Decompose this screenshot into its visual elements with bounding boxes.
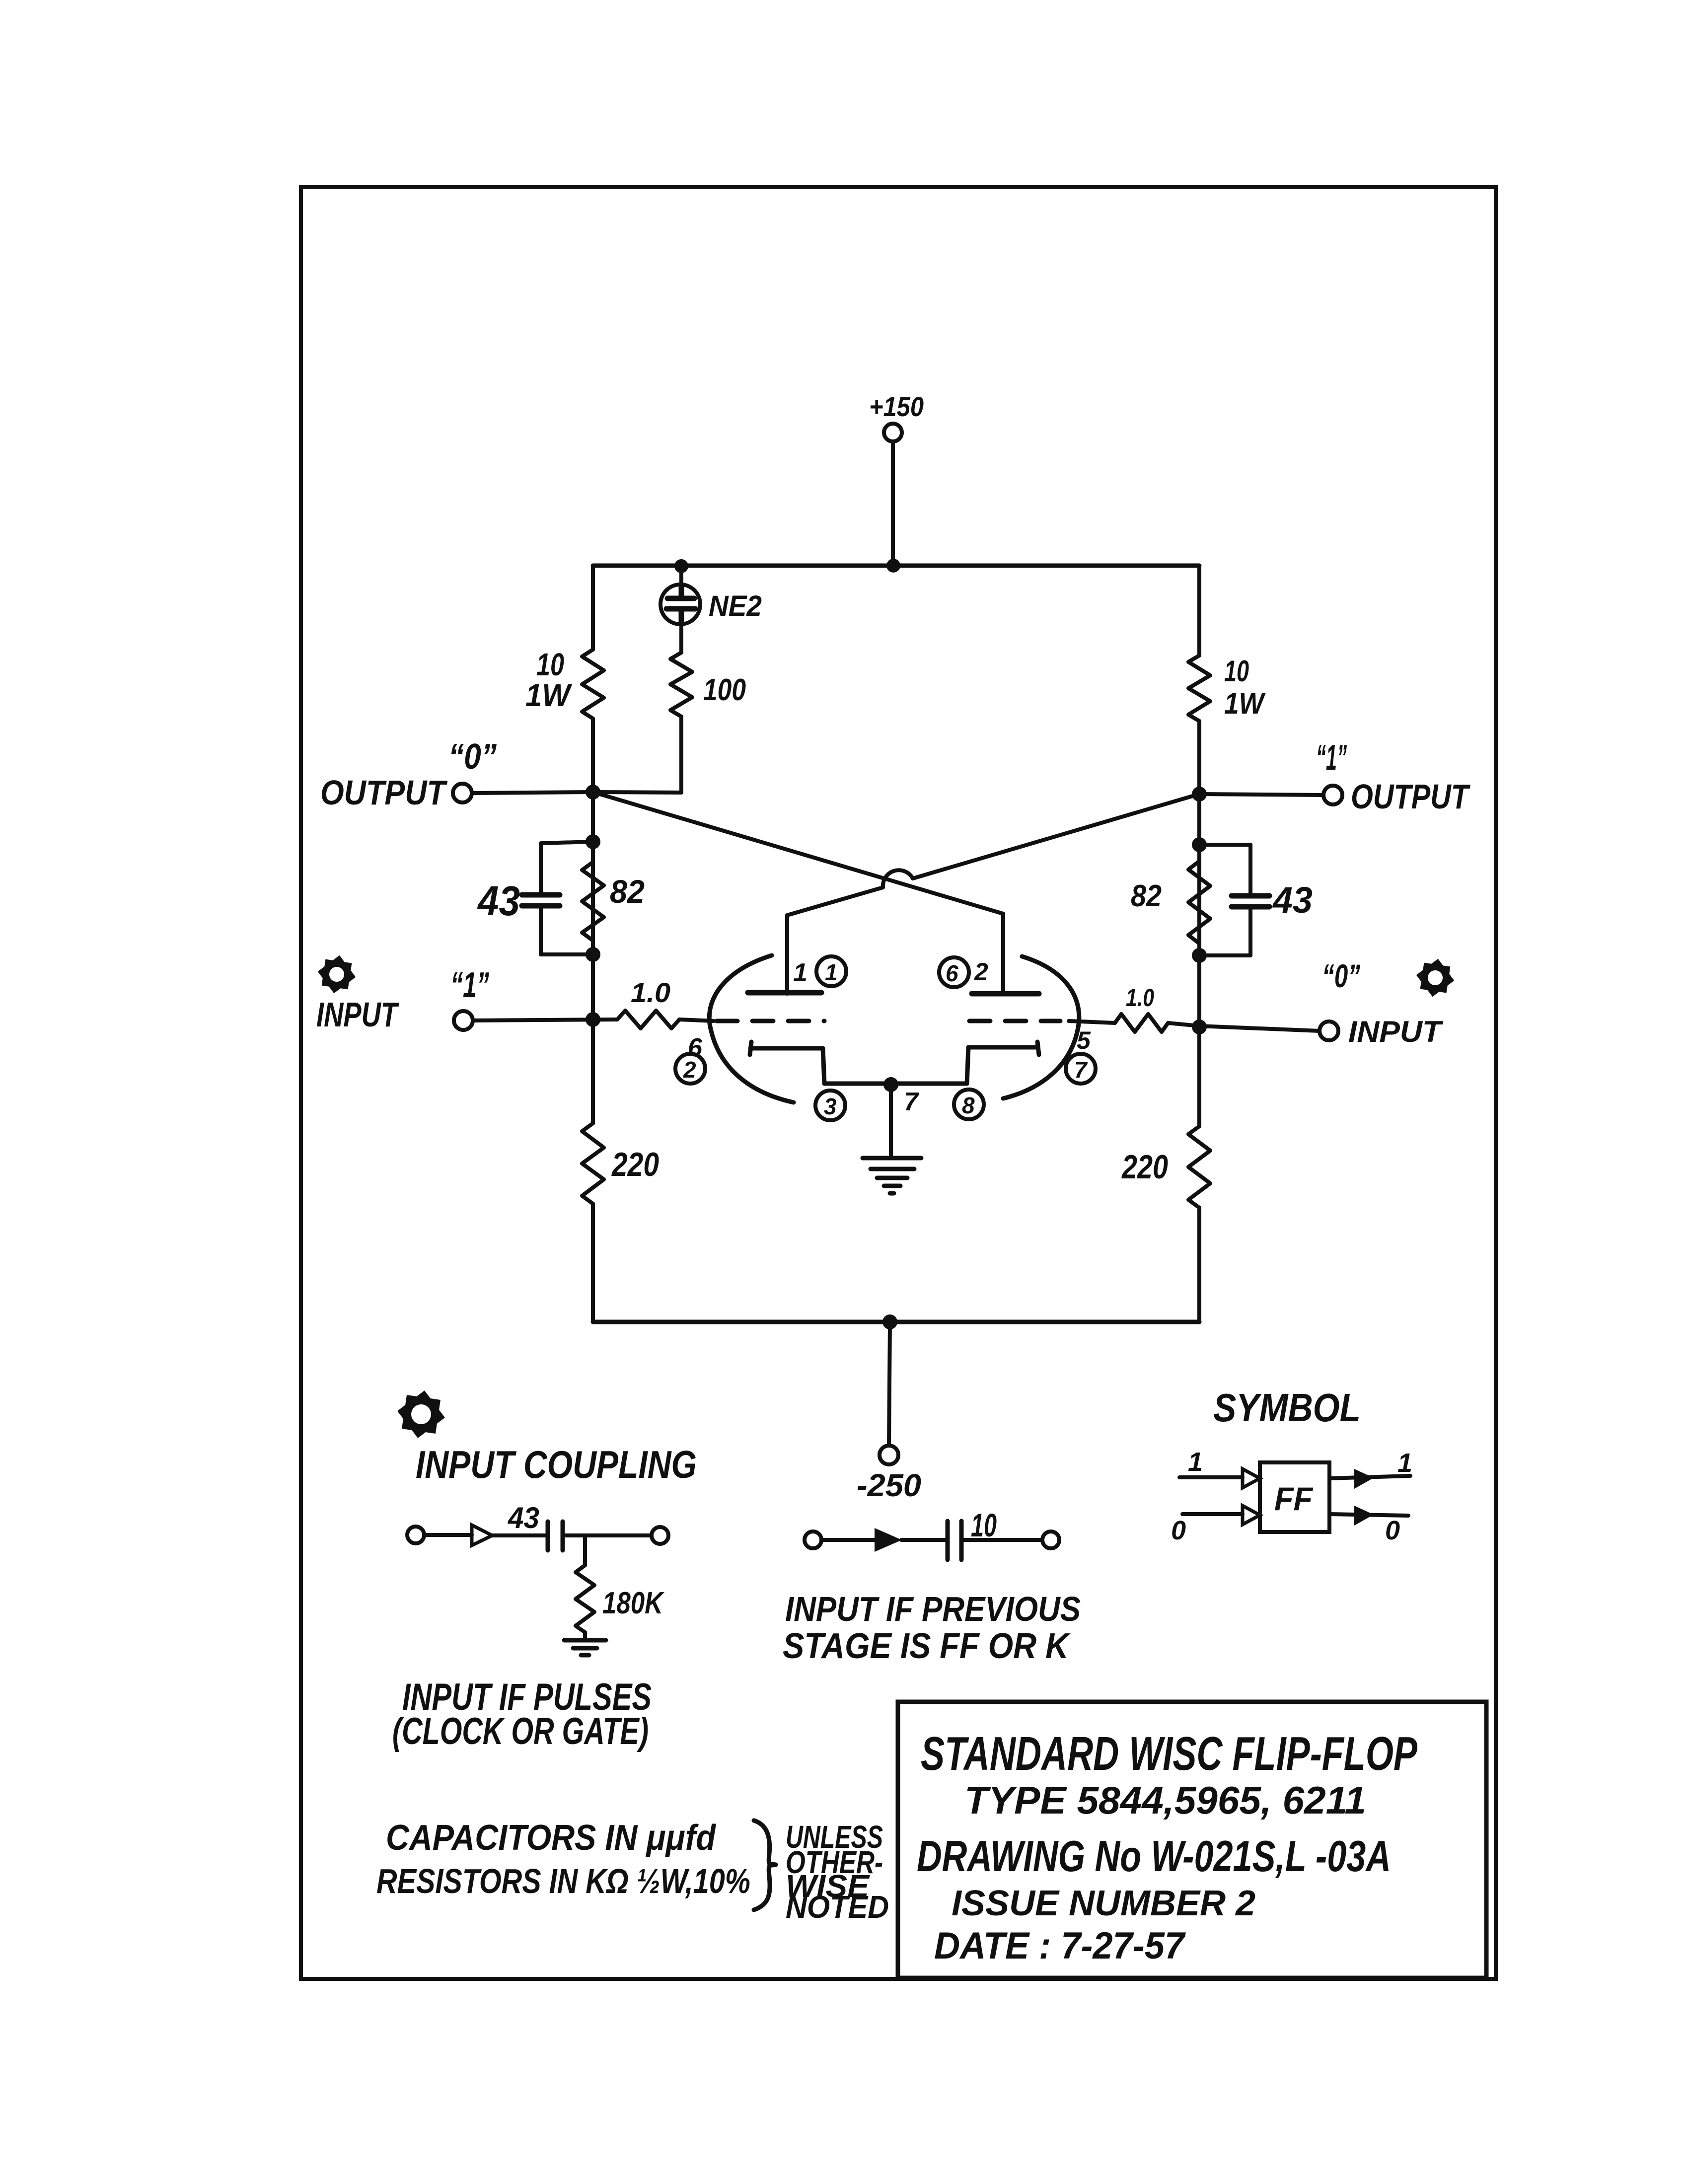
svg-text:NOTED: NOTED xyxy=(786,1889,889,1925)
terminal left output xyxy=(453,784,472,802)
connector symbol input coupling xyxy=(400,1393,442,1436)
wire left rail lower xyxy=(591,1204,595,1322)
svg-text:SYMBOL: SYMBOL xyxy=(1213,1385,1361,1430)
svg-text:43: 43 xyxy=(477,877,520,924)
pin circled 1 xyxy=(816,956,846,986)
svg-text:NE2: NE2 xyxy=(709,590,762,622)
left triode plate xyxy=(748,990,821,996)
neon bulb NE2 xyxy=(679,566,683,589)
capacitor 43 left branch xyxy=(541,842,593,954)
svg-text:82: 82 xyxy=(1131,879,1162,913)
svg-text:-250: -250 xyxy=(857,1467,921,1503)
resistor left 10 1W xyxy=(582,650,604,719)
wire cathode to ground xyxy=(889,1085,893,1157)
svg-text:10: 10 xyxy=(971,1507,997,1543)
crossover hop xyxy=(883,870,913,887)
junction top rail / +150 xyxy=(886,559,900,573)
terminal coupling A right xyxy=(652,1527,668,1544)
svg-text:RESISTORS IN KΩ ½W,10%: RESISTORS IN KΩ ½W,10% xyxy=(376,1862,750,1900)
svg-text:3: 3 xyxy=(824,1093,837,1119)
svg-text:43: 43 xyxy=(1272,879,1313,921)
svg-text:8: 8 xyxy=(962,1092,975,1118)
pin circled 8 xyxy=(954,1090,984,1119)
wire right input xyxy=(1069,1021,1320,1031)
resistor 180K xyxy=(576,1565,594,1632)
capacitor 43 right branch xyxy=(1199,845,1250,955)
pin circled 2 xyxy=(675,1054,705,1084)
wire coupling A to 180K xyxy=(583,1535,587,1565)
junction left 43/82 top xyxy=(586,834,600,849)
terminal coupling A left xyxy=(407,1527,424,1543)
diode coupling A (open) xyxy=(472,1525,492,1545)
svg-text:0: 0 xyxy=(1171,1516,1186,1545)
svg-text:1: 1 xyxy=(793,958,807,987)
terminal right input xyxy=(1320,1021,1338,1040)
svg-text:1.0: 1.0 xyxy=(631,977,670,1008)
FF output 1 xyxy=(1329,1476,1410,1478)
wire right rail mid xyxy=(1197,721,1201,1126)
svg-text:“1”: “1” xyxy=(450,965,489,1005)
wire right output xyxy=(1199,794,1323,795)
junction right 43/82 bottom xyxy=(1192,948,1207,963)
svg-text:1: 1 xyxy=(1397,1448,1412,1478)
junction right output node xyxy=(1192,787,1207,801)
svg-text:“0”: “0” xyxy=(448,737,497,777)
svg-text:100: 100 xyxy=(703,673,746,707)
svg-text:ISSUE NUMBER 2: ISSUE NUMBER 2 xyxy=(952,1884,1255,1923)
svg-text:CAPACITORS IN μμfd: CAPACITORS IN μμfd xyxy=(386,1818,717,1858)
wire +150 to top rail xyxy=(891,441,895,563)
svg-text:1W: 1W xyxy=(1224,687,1266,720)
svg-text:5: 5 xyxy=(1077,1026,1091,1054)
wire left input xyxy=(473,1019,617,1020)
svg-text:7: 7 xyxy=(1074,1057,1088,1083)
svg-text:INPUT: INPUT xyxy=(316,995,399,1034)
resistor right 220 xyxy=(1188,1126,1210,1208)
svg-text:INPUT COUPLING: INPUT COUPLING xyxy=(416,1443,697,1486)
terminal -250 xyxy=(880,1446,898,1464)
pin circled 6 xyxy=(939,957,969,987)
wire NE2 to 100 xyxy=(679,624,683,653)
brace xyxy=(754,1820,776,1910)
svg-text:1.0: 1.0 xyxy=(1126,984,1154,1012)
svg-text:INPUT IF PREVIOUS: INPUT IF PREVIOUS xyxy=(785,1590,1081,1628)
svg-text:0: 0 xyxy=(1385,1516,1400,1545)
svg-text:DATE : 7-27-57: DATE : 7-27-57 xyxy=(934,1925,1186,1967)
left triode grid (dashed) xyxy=(717,1019,824,1023)
resistor 100 xyxy=(670,653,692,717)
svg-text:10: 10 xyxy=(1224,655,1249,688)
terminal left input xyxy=(454,1011,473,1030)
resistor left 82 xyxy=(582,862,604,941)
junction left output node xyxy=(586,785,600,800)
FF output 0 xyxy=(1329,1514,1408,1516)
junction top rail / NE2 branch xyxy=(674,559,688,573)
diode coupling B (filled) xyxy=(875,1528,902,1552)
ground xyxy=(863,1158,921,1193)
junction right 43/82 top xyxy=(1192,837,1207,852)
junction bottom rail / -250 xyxy=(882,1314,897,1329)
junction left input / rail xyxy=(586,1012,600,1027)
FF symbol box xyxy=(1260,1462,1329,1532)
resistor right 82 xyxy=(1188,861,1210,944)
wire right rail upper xyxy=(1197,566,1201,655)
svg-text:220: 220 xyxy=(611,1146,659,1183)
terminal right output xyxy=(1323,786,1342,804)
svg-text:1: 1 xyxy=(1188,1447,1203,1477)
terminal coupling B right xyxy=(1042,1531,1059,1548)
ground coupling A xyxy=(564,1640,606,1655)
svg-text:220: 220 xyxy=(1121,1148,1168,1186)
wire cross-coupling right node to left plate xyxy=(787,794,1199,994)
wire left 1.0 to tube xyxy=(679,1019,714,1021)
svg-text:STANDARD WISC FLIP-FLOP: STANDARD WISC FLIP-FLOP xyxy=(921,1727,1418,1780)
junction left 43/82 bottom xyxy=(586,947,600,962)
junction cathodes xyxy=(883,1077,898,1092)
svg-text:TYPE 5844,5965, 6211: TYPE 5844,5965, 6211 xyxy=(964,1778,1366,1822)
svg-text:STAGE IS FF OR K: STAGE IS FF OR K xyxy=(783,1626,1071,1666)
wire left output xyxy=(472,792,593,793)
wire coupling A xyxy=(424,1535,652,1535)
right triode plate xyxy=(972,991,1039,997)
svg-text:2: 2 xyxy=(974,958,988,986)
wire 180K to ground xyxy=(583,1632,587,1639)
wire left rail upper xyxy=(591,566,595,650)
svg-text:1W: 1W xyxy=(525,677,572,713)
connector symbol left input xyxy=(320,957,354,991)
svg-text:OUTPUT: OUTPUT xyxy=(320,773,448,812)
svg-text:“0”: “0” xyxy=(1322,957,1360,994)
resistor right 10 1W xyxy=(1188,655,1210,721)
tube envelope right arc xyxy=(1003,956,1079,1098)
right triode cathode xyxy=(891,1042,1039,1084)
wire cross-coupling left node to right plate xyxy=(593,792,1003,994)
svg-text:1: 1 xyxy=(825,959,838,985)
wire bottom rail xyxy=(593,1320,1199,1324)
junction right input / rail xyxy=(1192,1019,1207,1034)
page frame xyxy=(301,187,1496,1979)
wire top rail xyxy=(593,564,1199,568)
connector symbol right input xyxy=(1418,961,1452,995)
tube envelope left arc xyxy=(709,955,794,1102)
terminal coupling B left xyxy=(805,1531,821,1548)
wire 100 branch down to output node xyxy=(593,717,681,793)
capacitor coupling A xyxy=(548,1522,563,1550)
right triode grid (dashed) xyxy=(969,1019,1060,1023)
wire left rail mid xyxy=(591,719,595,1123)
resistor left 1.0 xyxy=(617,1011,679,1028)
left triode cathode xyxy=(750,1042,890,1084)
svg-text:FF: FF xyxy=(1274,1480,1314,1517)
resistor right 1.0 xyxy=(1115,1014,1168,1032)
terminal +150 xyxy=(884,424,902,441)
svg-text:2: 2 xyxy=(683,1057,696,1083)
resistor left 220 xyxy=(582,1123,604,1204)
svg-text:180K: 180K xyxy=(602,1586,664,1620)
wire -250 drop xyxy=(889,1322,890,1446)
svg-text:82: 82 xyxy=(610,873,645,910)
capacitor coupling B xyxy=(948,1521,961,1560)
svg-text:+150: +150 xyxy=(869,391,924,422)
svg-text:7: 7 xyxy=(904,1088,919,1116)
svg-text:(CLOCK OR GATE): (CLOCK OR GATE) xyxy=(392,1710,649,1752)
svg-text:OUTPUT: OUTPUT xyxy=(1351,777,1470,816)
svg-text:INPUT: INPUT xyxy=(1348,1015,1444,1048)
svg-text:6: 6 xyxy=(946,960,958,986)
svg-text:43: 43 xyxy=(508,1501,539,1534)
wire coupling B xyxy=(821,1538,1042,1542)
svg-text:“1”: “1” xyxy=(1316,738,1347,778)
wire right rail lower xyxy=(1197,1208,1201,1322)
pin circled 7 xyxy=(1066,1054,1096,1084)
pin circled 3 xyxy=(815,1091,845,1120)
title block box xyxy=(898,1702,1486,1978)
svg-text:DRAWING No W-021S,L -03A: DRAWING No W-021S,L -03A xyxy=(917,1831,1391,1881)
